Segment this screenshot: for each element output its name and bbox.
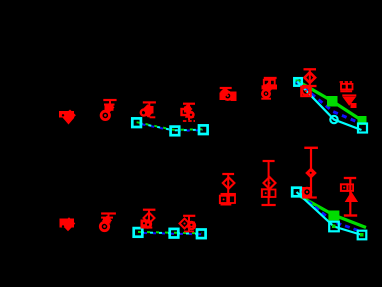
cluster R2 top: filled triangle-down bbox=[343, 97, 357, 106]
cyan open circle (top-right pt2) bbox=[330, 116, 337, 123]
cluster A2: filled diamond bbox=[63, 217, 76, 230]
cluster E: filled square right bbox=[231, 92, 237, 102]
cluster A2: filled triangle-down bbox=[62, 225, 74, 231]
cluster R2 top: cap above triangle bbox=[342, 94, 356, 96]
cluster F: error bar cap bbox=[264, 77, 277, 79]
cluster R1 bottom: error bar cap bbox=[304, 147, 318, 149]
cluster C2: open square bbox=[142, 221, 149, 228]
cluster C: filled triangle-down bbox=[143, 113, 154, 118]
cluster B2: open circle bbox=[100, 222, 108, 230]
cluster C2: diamond center dot bbox=[148, 217, 150, 219]
bottom-left dashed model line (tricolor) bbox=[138, 232, 201, 234]
cyan open square (bottom-right pt3) bbox=[358, 231, 367, 240]
cluster D: open circle bbox=[188, 112, 194, 118]
cluster R1 top: lower cap bbox=[302, 85, 317, 87]
cluster E2: diamond center dot bbox=[228, 182, 230, 184]
cluster B: second cap bbox=[104, 104, 115, 106]
top-right cyan model line bbox=[297, 82, 361, 131]
green filled square (top pt3) bbox=[358, 116, 367, 125]
cluster R1 top: diamond center dot bbox=[309, 77, 311, 79]
cluster B: error bar cap bbox=[103, 99, 116, 101]
cluster D: filled diamond bbox=[183, 104, 193, 114]
cluster C2: open circle bbox=[144, 220, 151, 227]
cyan open square (top-left series pt1) bbox=[132, 118, 141, 127]
cluster D2: marker hole bbox=[190, 224, 192, 226]
cluster R1 bottom: filled diamond bbox=[305, 167, 317, 179]
cyan open square (bottom-right pt2) bbox=[329, 222, 339, 232]
green dot inside bottom pt2 square bbox=[332, 225, 336, 229]
cluster D2: bottom cap bbox=[184, 231, 194, 233]
cluster B2: error bar stem bbox=[108, 214, 110, 223]
cluster D: dashed bottom cap bbox=[183, 120, 195, 122]
cluster F2: error bar stem bbox=[268, 161, 270, 205]
cluster F: filled square bbox=[271, 85, 278, 90]
cluster C2: bottom cap bbox=[143, 227, 152, 229]
cluster E2: bottom cap bbox=[221, 204, 232, 206]
cluster C2: open diamond bbox=[144, 213, 155, 224]
cluster F2: open square 2 bbox=[270, 190, 276, 198]
cluster R1 top: error bar stem bbox=[309, 69, 311, 86]
cluster E2: mid cap bbox=[221, 193, 236, 195]
cluster F: filled band bbox=[262, 85, 278, 89]
cluster F2: square center dot bbox=[265, 192, 267, 194]
cluster R2 bottom: error bar cap bbox=[344, 177, 356, 179]
cluster C: error bar cap bbox=[143, 101, 156, 103]
cluster R2 bottom: open square 1 bbox=[341, 184, 348, 191]
cluster R1 bottom: diamond center dot bbox=[310, 172, 312, 174]
top-right green model line bbox=[296, 80, 363, 121]
cluster F2: error bar cap bbox=[263, 160, 275, 162]
cluster F: open square 1 bbox=[264, 80, 269, 85]
cluster E2: error bar cap bbox=[222, 173, 234, 175]
cluster C2: filled block bbox=[141, 221, 151, 228]
cluster C: filled diamond bbox=[142, 104, 152, 114]
green filled square (top pt2) bbox=[327, 96, 338, 107]
cluster B: open circle bbox=[101, 111, 109, 119]
cluster B2: error bar cap bbox=[101, 212, 116, 214]
cluster R2 top: open square 1 bbox=[341, 84, 347, 90]
cluster E2: open square 2 bbox=[229, 196, 235, 204]
cluster F2: open square 1 bbox=[262, 189, 270, 197]
cluster R2 top: dashed cap bbox=[340, 81, 353, 83]
cluster R1 top: error bar cap bbox=[304, 68, 317, 70]
cluster E: error bar cap bbox=[220, 87, 232, 89]
cluster C: filled square bbox=[146, 106, 154, 114]
cluster F: error bar stem bbox=[269, 78, 271, 85]
cyan open square (bottom-left series pt1) bbox=[134, 228, 143, 237]
cluster R2 top: mid cap bbox=[340, 90, 352, 92]
bottom-right green model line bbox=[301, 197, 367, 228]
cluster F: bottom cap bbox=[261, 98, 271, 100]
cluster A2: filled block bbox=[60, 219, 75, 228]
cluster D: filled square bbox=[184, 107, 191, 113]
cluster D2: open diamond bbox=[180, 219, 190, 229]
cluster B2: filled diamond bbox=[102, 216, 112, 226]
cluster D2: filled block bbox=[188, 222, 196, 228]
cluster D: filled triangle right bbox=[185, 107, 194, 118]
cluster C: bottom cap bbox=[150, 116, 156, 118]
cluster R1 top: open circle bbox=[302, 87, 310, 95]
cluster F: open circle bbox=[262, 90, 269, 97]
cluster R2 bottom: bottom cap bbox=[344, 214, 357, 216]
cluster D: marker hole bbox=[190, 114, 192, 116]
cluster F2: bottom cap bbox=[262, 204, 276, 206]
cluster B: error bar stem bbox=[109, 100, 111, 110]
bottom-right cyan model line bbox=[297, 192, 363, 235]
cluster E: error bar stem bbox=[225, 88, 227, 93]
cluster R1 bottom: open square bbox=[303, 188, 311, 196]
cluster C: marker hole bbox=[142, 111, 145, 114]
cluster R2 top: open square 2 bbox=[347, 84, 353, 90]
cluster C2: error bar stem bbox=[148, 210, 150, 228]
cluster E: open circle bbox=[224, 92, 232, 100]
cluster F: open square 2 bbox=[269, 80, 274, 85]
cluster E: filled diamond bbox=[220, 87, 230, 97]
cluster E2: square center dot bbox=[223, 198, 225, 200]
cluster F: filled diamond bbox=[263, 82, 274, 93]
green dot inside bottom pt3 square bbox=[360, 233, 364, 237]
cluster F2: open diamond bbox=[264, 177, 276, 189]
cluster B2: filled square bbox=[103, 217, 111, 224]
cluster R1 bottom: open circle bbox=[303, 188, 311, 196]
green filled square (bottom pt2) bbox=[328, 211, 339, 221]
cluster R2 bottom: square center dot bbox=[343, 187, 345, 189]
cluster E2: open diamond bbox=[223, 177, 235, 189]
cluster D2: diamond center dot bbox=[183, 222, 185, 224]
cyan open square (top-left series pt3) bbox=[199, 125, 208, 134]
cluster E: filled square left bbox=[220, 93, 226, 101]
cluster C: open circle bbox=[141, 110, 147, 116]
cluster R2 bottom: filled triangle-up bbox=[345, 192, 358, 203]
cluster F2: diamond center dot bbox=[268, 182, 270, 184]
cluster D: error bar stem bbox=[188, 104, 190, 120]
cluster D: open square bbox=[182, 109, 188, 115]
cyan open square (bottom-right pt1) bbox=[292, 188, 301, 197]
top-left dashed model line (tricolor) bbox=[137, 122, 203, 131]
cluster A2: marker hole bbox=[62, 225, 64, 227]
cluster R1 bottom: bottom cap bbox=[302, 196, 317, 198]
cyan open square (top-right pt1) bbox=[294, 78, 302, 86]
cluster E2: open square 1 bbox=[220, 196, 227, 203]
cyan open square (bottom-left series pt2) bbox=[170, 229, 179, 238]
cluster R1 top: open diamond bbox=[305, 72, 316, 83]
cluster A: filled triangle-down bbox=[63, 118, 75, 125]
cluster D2: error bar cap bbox=[183, 215, 195, 217]
cyan open square (top-right pt3) bbox=[358, 124, 367, 133]
cluster C2: marker holes bbox=[143, 222, 145, 224]
cluster B: filled diamond bbox=[105, 103, 115, 113]
cluster B2: second cap bbox=[101, 217, 113, 219]
cluster D: error bar cap bbox=[183, 103, 195, 105]
cluster A: filled diamond bbox=[64, 110, 76, 122]
cluster B: filled square bbox=[105, 104, 114, 111]
cluster R2 top: filled square bbox=[351, 103, 357, 108]
cluster R1 top: open square bbox=[301, 87, 311, 97]
cluster R2 bottom: open square 2 bbox=[347, 184, 353, 191]
cluster A: filled block bbox=[59, 111, 74, 118]
cluster R1 bottom: error bar stem bbox=[310, 148, 312, 198]
cluster D2: error bar stem bbox=[188, 216, 190, 232]
cluster R2 bottom: error bar stem bbox=[349, 178, 351, 216]
cluster D2: open circle bbox=[188, 222, 195, 229]
cluster C2: error bar cap bbox=[143, 209, 156, 211]
cluster A: marker hole bbox=[62, 114, 64, 116]
top-right blue dashed model line bbox=[297, 82, 363, 125]
cluster E2: error bar stem bbox=[227, 174, 229, 205]
cyan open square (top-left series pt2) bbox=[171, 127, 180, 136]
bottom-right blue dashed model line bbox=[301, 196, 361, 232]
cyan open square (bottom-left series pt3) bbox=[197, 230, 206, 239]
cluster C: error bar stem bbox=[148, 102, 150, 117]
